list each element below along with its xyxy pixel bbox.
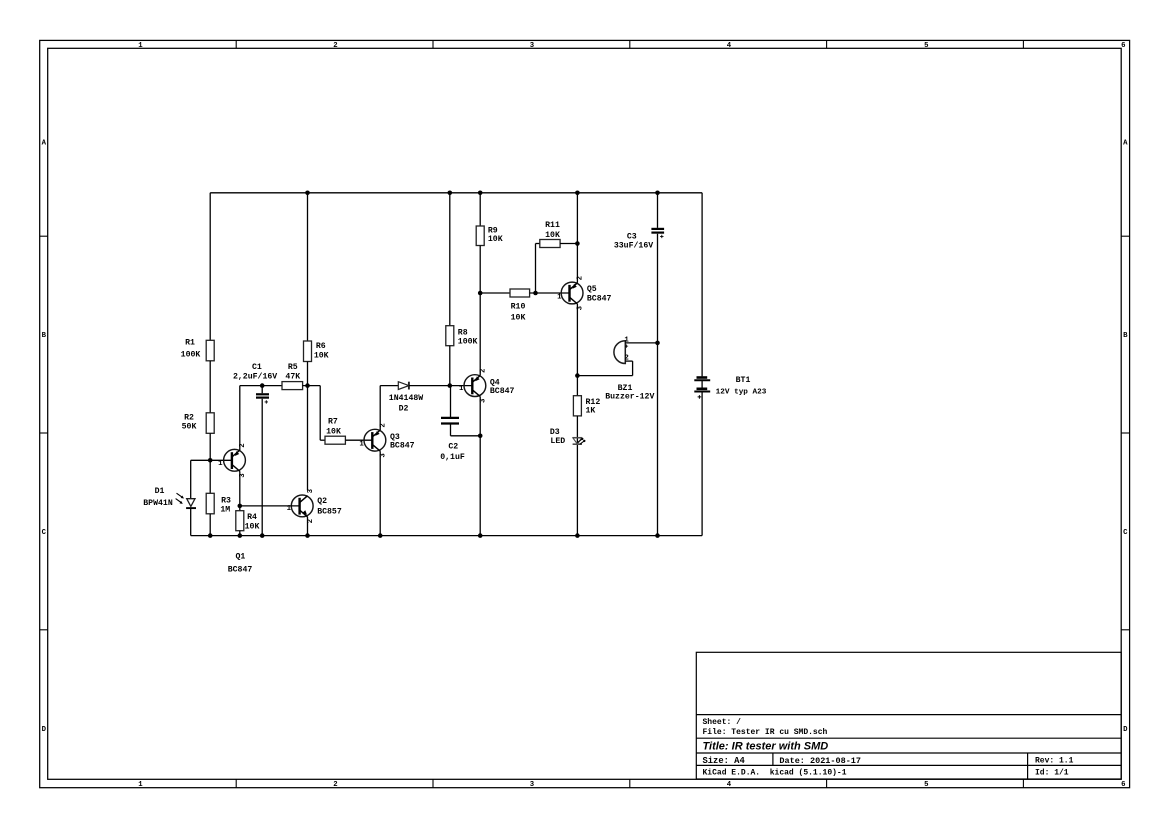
svg-text:4: 4 [727, 781, 732, 789]
svg-text:BC857: BC857 [317, 508, 342, 517]
svg-text:5: 5 [924, 42, 928, 50]
svg-text:D: D [42, 726, 47, 734]
svg-text:10K: 10K [245, 522, 260, 531]
svg-text:3: 3 [530, 42, 535, 50]
svg-text:4: 4 [727, 42, 732, 50]
svg-text:Q2: Q2 [317, 497, 327, 506]
svg-text:R2: R2 [184, 413, 194, 422]
svg-text:A: A [1123, 140, 1128, 148]
svg-text:B: B [1123, 332, 1128, 340]
svg-text:R12: R12 [586, 398, 601, 407]
svg-text:B: B [42, 332, 47, 340]
svg-text:Q1: Q1 [235, 552, 245, 561]
svg-text:R1: R1 [185, 338, 195, 347]
svg-text:3: 3 [577, 305, 585, 310]
svg-text:BC847: BC847 [587, 294, 612, 303]
svg-text:BC847: BC847 [228, 565, 253, 574]
svg-text:10K: 10K [511, 314, 526, 323]
svg-text:C3: C3 [627, 232, 637, 241]
svg-text:C1: C1 [252, 363, 262, 372]
svg-text:10K: 10K [326, 428, 341, 437]
svg-text:A: A [42, 140, 47, 148]
svg-text:100K: 100K [181, 350, 201, 359]
svg-text:D1: D1 [155, 487, 165, 496]
svg-text:Date: 2021-08-17: Date: 2021-08-17 [779, 756, 861, 766]
svg-text:BC847: BC847 [490, 387, 515, 396]
svg-text:Q3: Q3 [390, 433, 400, 442]
svg-text:C: C [42, 529, 47, 537]
svg-text:2: 2 [333, 781, 337, 789]
svg-text:6: 6 [1121, 781, 1125, 789]
svg-text:R8: R8 [458, 328, 468, 337]
svg-text:1: 1 [138, 781, 143, 789]
svg-text:47K: 47K [285, 372, 300, 381]
svg-text:Rev: 1.1: Rev: 1.1 [1035, 757, 1074, 766]
svg-text:BPW41N: BPW41N [143, 499, 173, 508]
svg-text:100K: 100K [458, 338, 478, 347]
svg-text:2: 2 [624, 355, 628, 363]
svg-text:R10: R10 [511, 303, 526, 312]
svg-text:3: 3 [307, 488, 315, 493]
svg-text:6: 6 [1121, 42, 1125, 50]
svg-text:3: 3 [239, 473, 247, 478]
svg-text:R5: R5 [288, 363, 298, 372]
svg-text:1: 1 [287, 505, 292, 513]
svg-text:Id: 1/1: Id: 1/1 [1035, 768, 1069, 777]
svg-text:5: 5 [924, 781, 928, 789]
svg-text:1N4148W: 1N4148W [389, 394, 423, 403]
svg-text:BT1: BT1 [736, 376, 751, 385]
svg-text:10K: 10K [314, 352, 329, 361]
svg-text:3: 3 [380, 453, 388, 458]
svg-text:1: 1 [218, 460, 223, 468]
svg-text:1: 1 [138, 42, 143, 50]
svg-text:R3: R3 [221, 497, 231, 506]
svg-text:Buzzer-12V: Buzzer-12V [605, 393, 654, 402]
svg-text:10K: 10K [488, 235, 503, 244]
svg-text:R6: R6 [316, 342, 326, 351]
svg-text:C2: C2 [448, 442, 458, 451]
svg-text:1: 1 [359, 440, 364, 448]
svg-text:3: 3 [480, 398, 488, 403]
svg-text:1M: 1M [220, 506, 230, 515]
svg-text:LED: LED [550, 437, 565, 446]
svg-text:2: 2 [577, 276, 585, 280]
svg-text:2: 2 [239, 443, 247, 447]
svg-text:10K: 10K [545, 231, 560, 240]
svg-text:Sheet: /: Sheet: / [703, 718, 742, 727]
svg-text:R4: R4 [247, 513, 257, 522]
svg-text:D2: D2 [399, 405, 409, 414]
svg-text:R7: R7 [328, 418, 338, 427]
svg-text:1K: 1K [586, 407, 596, 416]
svg-text:D3: D3 [550, 428, 560, 437]
svg-text:Title: IR tester with SMD: Title: IR tester with SMD [703, 740, 829, 752]
svg-text:D: D [1123, 726, 1128, 734]
svg-text:R11: R11 [545, 221, 560, 230]
svg-text:BC847: BC847 [390, 442, 415, 451]
svg-text:33uF/16V: 33uF/16V [614, 240, 653, 250]
svg-text:2: 2 [333, 42, 337, 50]
svg-text:C: C [1123, 529, 1128, 537]
svg-text:KiCad E.D.A. kicad (5.1.10)-1: KiCad E.D.A. kicad (5.1.10)-1 [703, 768, 847, 777]
svg-text:1: 1 [557, 294, 562, 302]
svg-text:50K: 50K [182, 423, 197, 432]
svg-text:12V typ A23: 12V typ A23 [716, 388, 767, 396]
svg-text:2: 2 [380, 423, 388, 427]
svg-text:2: 2 [307, 519, 315, 523]
svg-text:3: 3 [530, 781, 535, 789]
svg-text:2: 2 [480, 369, 488, 373]
svg-text:1: 1 [459, 385, 464, 393]
svg-text:2,2uF/16V: 2,2uF/16V [233, 371, 277, 381]
svg-text:Size: A4: Size: A4 [703, 756, 746, 766]
svg-text:Q5: Q5 [587, 285, 597, 294]
svg-text:0,1uF: 0,1uF [440, 453, 465, 462]
svg-text:1: 1 [624, 336, 629, 344]
svg-text:File: Tester IR cu SMD.sch: File: Tester IR cu SMD.sch [703, 728, 828, 737]
